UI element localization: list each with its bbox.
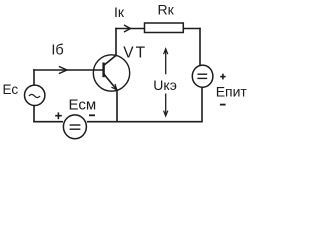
svg-text:Uкэ: Uкэ [153,77,177,93]
wire emitter vertical [116,90,118,123]
voltage source Ec [25,85,45,105]
svg-text:Есм: Есм [69,96,97,113]
transistor VT [93,55,129,91]
wire base horizontal [33,69,103,71]
arrow collector current [124,25,131,32]
wire right vertical top [199,28,201,66]
wire bottom left [33,121,63,123]
wire collector vertical [115,28,117,56]
wire left vertical bottom [33,105,35,122]
arrow base current [59,66,67,73]
wire right vertical bottom [201,87,203,123]
wire top left [115,28,144,30]
svg-text:Rк: Rк [158,2,175,18]
svg-text:Епит: Епит [216,83,248,99]
svg-text:Iк: Iк [114,4,125,20]
battery source Epit [192,65,213,87]
arrow Uke up [164,49,168,75]
label plus Epit [220,74,225,80]
resistor Rk [145,23,184,33]
label minus Ecm [89,114,95,116]
svg-text:Iб: Iб [51,42,63,58]
wire bottom right [116,121,202,123]
battery source Ecm [63,115,86,139]
label plus Ecm [55,112,62,119]
svg-text:Ес: Ес [3,82,19,97]
arrow Uke down [164,94,168,117]
label minus Epit [220,104,226,106]
svg-text:VT: VT [123,44,147,61]
wire top right [183,28,200,30]
wire bottom middle [87,121,118,123]
wire left vertical top [33,69,35,85]
